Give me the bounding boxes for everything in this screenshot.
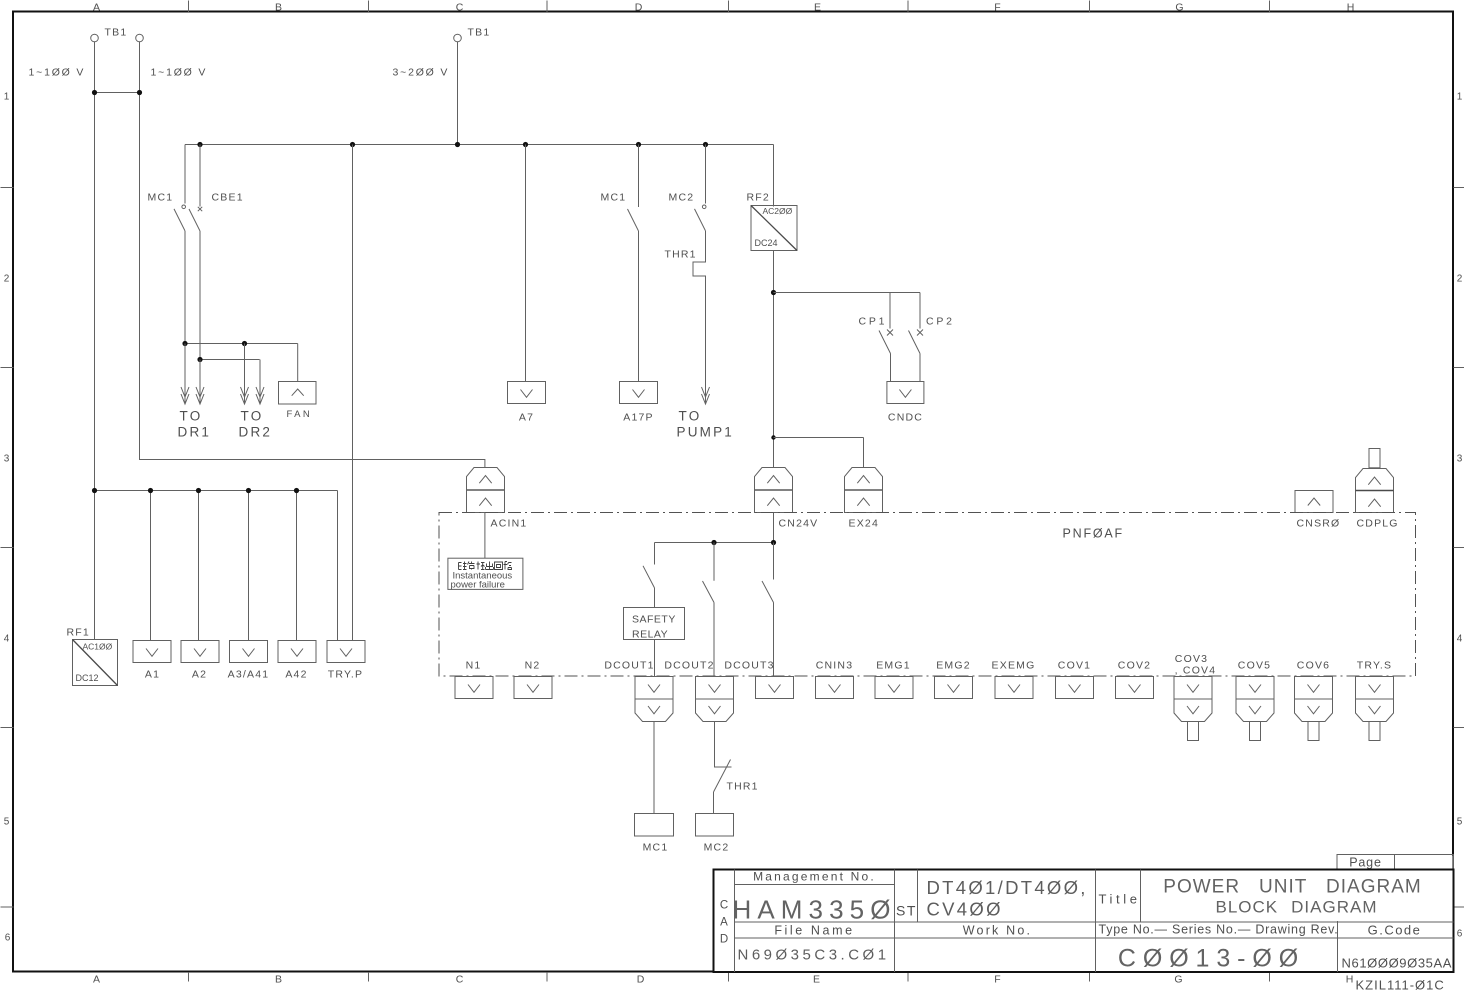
svg-text:N2: N2 [525,660,541,672]
svg-text:EXEMG: EXEMG [992,660,1036,672]
svg-text:4: 4 [1457,634,1463,645]
svg-text:COV2: COV2 [1118,660,1151,672]
svg-text:Title: Title [1099,892,1141,907]
svg-text:AC1ØØ: AC1ØØ [83,642,113,652]
svg-text:C: C [456,974,464,986]
svg-text:ST: ST [896,903,917,919]
svg-text:COV6: COV6 [1297,660,1330,672]
svg-text:CNIN3: CNIN3 [816,660,854,672]
svg-text:A3/A41: A3/A41 [228,669,270,681]
svg-text:CV4ØØ: CV4ØØ [927,899,1003,920]
svg-text:G: G [1175,2,1183,14]
svg-text:B: B [275,974,282,986]
svg-text:H: H [1347,2,1355,14]
svg-text:DR1: DR1 [178,425,212,440]
svg-text:D: D [635,2,643,14]
svg-text:EX24: EX24 [849,518,880,530]
svg-text:B: B [275,2,282,14]
svg-text:N69Ø35C3.CØ1: N69Ø35C3.CØ1 [738,947,890,964]
svg-text:4: 4 [4,634,10,645]
svg-text:C: C [720,900,728,912]
svg-text:EMG1: EMG1 [876,660,911,672]
svg-text:DC24: DC24 [755,238,778,248]
svg-text:TO: TO [241,409,264,424]
svg-text:MC2: MC2 [704,842,730,854]
svg-text:KZIL111-Ø1C: KZIL111-Ø1C [1356,978,1445,992]
svg-text:D: D [637,974,645,986]
svg-text:SAFETY: SAFETY [632,614,676,626]
svg-text:TO: TO [679,409,702,424]
svg-text:1: 1 [4,92,10,103]
svg-text:DCOUT2: DCOUT2 [664,660,714,672]
svg-text:MC1: MC1 [601,192,627,204]
svg-text:COV3: COV3 [1175,653,1208,665]
svg-text:DCOUT1: DCOUT1 [604,660,654,672]
svg-text:Page: Page [1349,856,1381,870]
svg-text:FAN: FAN [287,409,313,420]
svg-text:RF2: RF2 [747,192,770,204]
svg-text:1: 1 [1457,92,1463,103]
svg-text:POWER UNIT DIAGRAM: POWER UNIT DIAGRAM [1163,877,1421,898]
svg-text:N1: N1 [466,660,482,672]
svg-text:H: H [1346,974,1354,986]
svg-text:A2: A2 [192,669,207,681]
svg-text:TB1: TB1 [468,27,491,39]
svg-text:COV1: COV1 [1058,660,1091,672]
svg-text:TB1: TB1 [105,27,128,39]
svg-text:Type No.— Series No.— Drawing: Type No.— Series No.— Drawing Rev. [1099,923,1339,937]
svg-text:D: D [720,934,728,946]
svg-text:A7: A7 [519,412,534,424]
svg-text:RELAY: RELAY [632,629,668,641]
svg-text:A42: A42 [285,669,307,681]
svg-text:5: 5 [4,817,10,828]
svg-text:E: E [813,974,820,986]
svg-text:3~2ØØ V: 3~2ØØ V [393,67,450,79]
svg-text:C: C [456,2,464,14]
svg-text:2: 2 [1457,274,1463,285]
svg-text:power failure: power failure [451,580,505,591]
svg-text:A: A [720,917,728,929]
svg-text:AC2ØØ: AC2ØØ [763,206,793,216]
svg-text:F: F [994,2,1000,14]
svg-text:PNFØAF: PNFØAF [1063,527,1125,541]
svg-text:Work No.: Work No. [963,924,1032,938]
svg-text:DC12: DC12 [76,673,99,683]
svg-text:DR2: DR2 [239,425,273,440]
svg-text:THR1: THR1 [665,249,697,261]
svg-text:2: 2 [4,274,10,285]
svg-text:File Name: File Name [774,924,854,938]
svg-text:3: 3 [1457,454,1463,465]
svg-text:A17P: A17P [623,412,654,424]
svg-text:TRY.P: TRY.P [328,669,363,681]
svg-text:6: 6 [1457,929,1463,940]
svg-text:CP2: CP2 [926,316,955,328]
svg-text:MC1: MC1 [148,192,174,204]
svg-text:THR1: THR1 [727,781,759,793]
svg-text:CN24V: CN24V [779,518,819,530]
svg-text:CP1: CP1 [859,316,888,328]
svg-text:CDPLG: CDPLG [1357,518,1399,530]
svg-text:TO: TO [180,409,203,424]
svg-text:G: G [1174,974,1182,986]
svg-text:CBE1: CBE1 [212,192,244,204]
svg-text:CNSRØ: CNSRØ [1297,518,1341,530]
svg-text:ACIN1: ACIN1 [491,518,528,530]
svg-text:PUMP1: PUMP1 [677,425,735,440]
svg-text:N61ØØØ9Ø35AA: N61ØØØ9Ø35AA [1342,956,1453,971]
svg-text:F: F [994,974,1000,986]
svg-text:A: A [93,974,100,986]
svg-text:5: 5 [1457,817,1463,828]
svg-text:A1: A1 [145,669,160,681]
svg-text:COV5: COV5 [1238,660,1271,672]
svg-text:G.Code: G.Code [1368,923,1422,938]
svg-text:MC1: MC1 [643,842,669,854]
svg-text:TRY.S: TRY.S [1357,660,1392,672]
svg-text:, COV4: , COV4 [1175,665,1217,677]
svg-text:DT4Ø1/DT4ØØ,: DT4Ø1/DT4ØØ, [927,877,1088,898]
svg-text:1~1ØØ V: 1~1ØØ V [151,67,208,79]
svg-text:1~1ØØ V: 1~1ØØ V [29,67,86,79]
svg-text:A: A [93,2,100,14]
svg-text:CNDC: CNDC [888,412,923,424]
svg-text:Management No.: Management No. [753,870,876,884]
svg-text:MC2: MC2 [669,192,695,204]
svg-text:DCOUT3: DCOUT3 [724,660,774,672]
svg-text:BLOCK DIAGRAM: BLOCK DIAGRAM [1216,898,1378,917]
svg-text:6: 6 [5,933,11,944]
svg-text:3: 3 [4,454,10,465]
svg-text:E: E [814,2,821,14]
svg-text:CØØ13-ØØ: CØØ13-ØØ [1118,945,1305,973]
svg-text:RF1: RF1 [67,627,90,639]
svg-text:EMG2: EMG2 [936,660,971,672]
svg-text:HAM335Ø: HAM335Ø [732,895,896,925]
